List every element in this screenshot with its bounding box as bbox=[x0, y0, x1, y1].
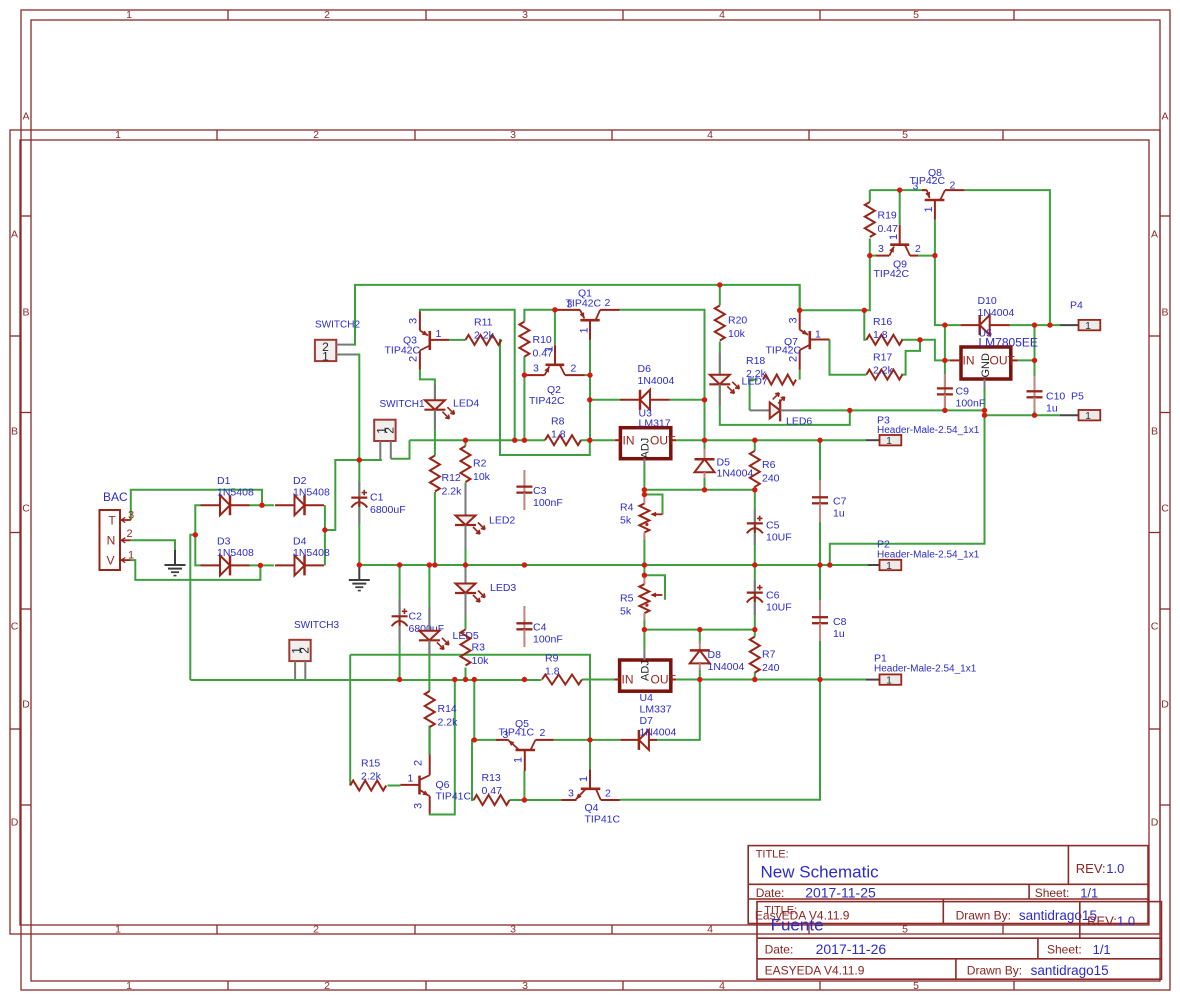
svg-text:2: 2 bbox=[383, 427, 397, 434]
svg-text:OUT: OUT bbox=[651, 673, 677, 687]
svg-text:1: 1 bbox=[126, 9, 132, 21]
wire R18 left drop to LED6 bbox=[750, 380, 758, 411]
junction dot node C5-C6 bbox=[752, 562, 757, 567]
capacitor C7 1u bbox=[812, 480, 847, 522]
svg-text:100nF: 100nF bbox=[533, 497, 563, 509]
wire R5 bottom bbox=[643, 618, 645, 630]
junction dot node U5 IN bbox=[942, 358, 947, 363]
svg-text:C: C bbox=[22, 503, 30, 515]
svg-text:1N5408: 1N5408 bbox=[293, 487, 330, 499]
svg-text:4: 4 bbox=[707, 924, 713, 936]
resistor R9 1.8 bbox=[542, 653, 582, 685]
junction dot node D8 bottom / U4 OUT bbox=[697, 677, 702, 682]
svg-text:A: A bbox=[1161, 111, 1168, 123]
svg-text:1: 1 bbox=[886, 435, 892, 447]
svg-text:R7: R7 bbox=[762, 649, 776, 661]
svg-text:2.2k: 2.2k bbox=[361, 771, 382, 783]
svg-text:LED6: LED6 bbox=[786, 416, 812, 428]
svg-text:5: 5 bbox=[913, 980, 919, 992]
junction dot node Q9 base / Q8 row bbox=[897, 187, 902, 192]
junction dot node D5 top bbox=[702, 438, 707, 443]
svg-text:V: V bbox=[106, 554, 114, 568]
wire D5 column upper bbox=[704, 400, 706, 449]
svg-text:Drawn By:: Drawn By: bbox=[956, 909, 1011, 923]
wire Q8 pin2 across and down to P4 row bbox=[965, 190, 1050, 325]
svg-text:2: 2 bbox=[324, 9, 330, 21]
svg-text:1: 1 bbox=[579, 327, 591, 333]
wire Q6 pin3 jog up to neg row bbox=[430, 680, 455, 815]
wire C6 column bbox=[754, 565, 756, 630]
ground (C1 bottom rail) bbox=[349, 567, 370, 591]
transistor Q7 TIP42C bbox=[766, 312, 830, 370]
junction dot node R6 bottom bbox=[752, 487, 757, 492]
junction dot node C7-C8 bbox=[817, 562, 822, 567]
svg-text:Sheet:: Sheet: bbox=[1047, 943, 1082, 957]
svg-text:LM7805EE: LM7805EE bbox=[979, 336, 1038, 350]
wire Q2 pin3 stub bbox=[524, 374, 526, 376]
svg-text:1N4004: 1N4004 bbox=[708, 661, 745, 673]
svg-text:C2: C2 bbox=[409, 611, 423, 623]
capacitor C10 1u bbox=[1027, 376, 1066, 415]
svg-text:Date:: Date: bbox=[756, 886, 785, 900]
junction dot node U4 ADJ bbox=[642, 627, 647, 632]
svg-text:2: 2 bbox=[413, 760, 425, 766]
wire Q7-Q9 row bbox=[800, 256, 870, 311]
svg-text:5: 5 bbox=[913, 9, 919, 21]
diode D8 1N4004 bbox=[690, 641, 745, 673]
svg-text:1: 1 bbox=[322, 350, 329, 364]
junction dot node C4 bottom bbox=[522, 677, 527, 682]
junction dot node R6 top bbox=[752, 438, 757, 443]
wire D1 cathode to D2 anode bbox=[249, 504, 274, 506]
svg-text:D: D bbox=[11, 817, 19, 829]
resistor R11 2.2k bbox=[466, 317, 502, 345]
svg-text:Header-Male-2.54_1x1: Header-Male-2.54_1x1 bbox=[877, 425, 980, 436]
resistor R2 10k bbox=[461, 446, 491, 483]
svg-text:C8: C8 bbox=[833, 616, 847, 628]
svg-text:B: B bbox=[11, 426, 18, 438]
svg-text:1u: 1u bbox=[833, 508, 845, 520]
wire Q5 pin2 to Q4 base node bbox=[554, 739, 590, 741]
wire R4 bottom to ground rail bbox=[643, 536, 645, 566]
svg-text:3: 3 bbox=[533, 363, 539, 375]
svg-text:P5: P5 bbox=[1071, 391, 1084, 403]
wire LED7 return to LED6 node bbox=[720, 386, 850, 425]
wire vertical to R15 bbox=[349, 655, 351, 786]
wire R5 wiper loop bbox=[644, 575, 665, 600]
wire ADJ rail upper bbox=[644, 489, 754, 491]
svg-text:3: 3 bbox=[913, 181, 919, 193]
svg-text:A: A bbox=[1151, 229, 1158, 241]
sheet frame 2 (second overlapping schematic border) bbox=[10, 129, 1160, 935]
wire Q3 pin2 jog to LED4 bbox=[420, 370, 435, 456]
svg-text:C: C bbox=[1151, 621, 1159, 633]
transistor Q5 TIP41C bbox=[496, 718, 554, 771]
svg-text:Q4: Q4 bbox=[585, 802, 599, 814]
svg-text:1N4004: 1N4004 bbox=[638, 375, 675, 387]
wire Q2 base drop bbox=[554, 310, 556, 345]
header P5 bbox=[1060, 391, 1100, 423]
LED LED3 bbox=[455, 567, 516, 617]
svg-text:SWITCH2: SWITCH2 bbox=[315, 320, 360, 331]
wire C10 column bbox=[1034, 325, 1036, 415]
svg-text:ADJ: ADJ bbox=[640, 438, 652, 459]
svg-text:2017-11-25: 2017-11-25 bbox=[805, 884, 876, 900]
ground (BAC neutral) bbox=[165, 550, 186, 576]
svg-text:2: 2 bbox=[540, 727, 546, 739]
junction dot node R5 top bbox=[642, 573, 647, 578]
resistor R16 1.8 bbox=[866, 316, 902, 345]
svg-text:240: 240 bbox=[762, 662, 780, 674]
transistor Q4 TIP41C bbox=[561, 769, 620, 825]
svg-text:1: 1 bbox=[578, 776, 590, 782]
wire SWITCH1 pin2 jog up to R8 row bbox=[391, 440, 410, 459]
svg-text:BAC: BAC bbox=[103, 490, 128, 504]
resistor R19 0.47 bbox=[865, 202, 898, 237]
svg-text:1.8: 1.8 bbox=[873, 329, 888, 341]
svg-text:R2: R2 bbox=[473, 458, 487, 470]
wire C8 column bbox=[819, 565, 821, 680]
wire R11 right s-jog to U3 IN node bbox=[500, 340, 590, 455]
junction dot node Q5 base / R13 bbox=[522, 797, 527, 802]
diode D1 1N5408 bbox=[201, 475, 254, 515]
svg-text:OUT: OUT bbox=[990, 354, 1016, 368]
header P4 bbox=[1060, 300, 1100, 332]
wire D6 left lead to Q1 base column bbox=[590, 399, 620, 401]
resistor R6 240 bbox=[750, 451, 780, 487]
wire A: SWITCH2 pin2 up and across top bbox=[350, 285, 799, 345]
svg-text:TIP42C: TIP42C bbox=[766, 345, 802, 357]
capacitor C9 100nF bbox=[937, 374, 985, 410]
svg-text:C5: C5 bbox=[766, 520, 780, 532]
svg-text:Header-Male-2.54_1x1: Header-Male-2.54_1x1 bbox=[877, 550, 980, 561]
svg-text:4: 4 bbox=[719, 980, 725, 992]
svg-text:3: 3 bbox=[522, 9, 528, 21]
resistor R17 2.2k bbox=[866, 352, 902, 380]
svg-text:1: 1 bbox=[115, 129, 121, 141]
regulator U4 LM337 bbox=[615, 650, 677, 739]
junction dot node U3 ADJ bbox=[642, 487, 647, 492]
wire LED2 column to ground rail bbox=[465, 483, 467, 566]
svg-text:2.2k: 2.2k bbox=[442, 486, 463, 498]
svg-text:1: 1 bbox=[544, 346, 556, 352]
svg-text:ADJ: ADJ bbox=[640, 660, 652, 681]
svg-text:1: 1 bbox=[436, 328, 442, 340]
regulator U5 LM7805EE bbox=[950, 328, 1038, 390]
junction dot node Q1 pin3 / Q2 base bbox=[552, 307, 557, 312]
svg-text:C6: C6 bbox=[766, 590, 780, 602]
wire Q7 pin2 to R18 bbox=[799, 370, 801, 380]
svg-text:R14: R14 bbox=[438, 703, 457, 715]
svg-text:1: 1 bbox=[886, 560, 892, 572]
junction dot node R4 bottom bbox=[642, 562, 647, 567]
wire Q3 pin3 over to R8 row bbox=[420, 310, 515, 440]
wire R13 node to Q4 pin3 bbox=[524, 799, 561, 801]
header P1 bbox=[866, 653, 977, 687]
wire LED3 column bbox=[465, 565, 467, 630]
svg-text:N: N bbox=[107, 534, 116, 548]
junction dot node Q6 riser bbox=[452, 677, 457, 682]
svg-text:3: 3 bbox=[408, 318, 420, 324]
wire LED5-R14 column upper bbox=[428, 565, 430, 691]
junction dot node R3 bottom bbox=[463, 677, 468, 682]
junction dot node Q5 riser top bbox=[472, 677, 477, 682]
capacitor C4 100nF bbox=[516, 606, 562, 647]
transistor Q2 TIP42C bbox=[526, 345, 585, 407]
resistor R20 10k bbox=[715, 306, 748, 341]
wire Q4 base drop bbox=[589, 740, 591, 769]
svg-text:U4: U4 bbox=[640, 692, 654, 704]
resistor R10 0.47 bbox=[519, 322, 553, 360]
LED LED7 bbox=[709, 353, 768, 406]
switch SWITCH1 bbox=[374, 399, 425, 460]
wire C1 column bbox=[358, 460, 360, 565]
svg-text:0.47: 0.47 bbox=[482, 785, 503, 797]
capacitor C1 6800uF bbox=[351, 482, 405, 524]
wire P5 row bbox=[985, 414, 1061, 416]
svg-text:3: 3 bbox=[567, 299, 573, 311]
junction dot node R7 bottom bbox=[752, 677, 757, 682]
junction dot node R10-C3 bbox=[522, 438, 527, 443]
wire U5 OUT to C10 column bbox=[1018, 359, 1035, 361]
svg-text:B: B bbox=[1161, 307, 1168, 319]
svg-text:A: A bbox=[22, 111, 29, 123]
svg-text:Sheet:: Sheet: bbox=[1035, 886, 1070, 900]
svg-text:5: 5 bbox=[902, 129, 908, 141]
svg-text:LED4: LED4 bbox=[453, 398, 479, 410]
svg-text:TITLE:: TITLE: bbox=[756, 849, 789, 861]
potentiometer R4 5k bbox=[620, 495, 662, 540]
svg-text:2017-11-26: 2017-11-26 bbox=[816, 941, 887, 957]
wire bridge left drop to switch3 row bbox=[190, 535, 195, 680]
svg-text:100nF: 100nF bbox=[956, 398, 986, 410]
junction dot node D8 top bbox=[697, 627, 702, 632]
svg-text:2: 2 bbox=[605, 297, 611, 309]
svg-text:New Schematic: New Schematic bbox=[761, 863, 880, 882]
svg-text:2.2k: 2.2k bbox=[438, 717, 459, 729]
resistor R3 10k bbox=[461, 630, 490, 668]
svg-text:santidrago15: santidrago15 bbox=[1019, 908, 1097, 923]
transistor Q3 TIP42C bbox=[385, 312, 450, 370]
svg-text:1N5408: 1N5408 bbox=[293, 547, 330, 559]
svg-text:1N4004: 1N4004 bbox=[717, 468, 754, 480]
LED LED2 bbox=[455, 484, 515, 549]
wire mid row to Q4 base bbox=[350, 655, 590, 740]
wire SWITCH2 pin1 drop bbox=[357, 355, 360, 461]
svg-text:10UF: 10UF bbox=[766, 602, 792, 614]
wire A right drop bbox=[799, 285, 801, 310]
svg-text:2: 2 bbox=[313, 129, 319, 141]
svg-text:R9: R9 bbox=[545, 653, 559, 665]
svg-text:10k: 10k bbox=[728, 328, 746, 340]
svg-text:SWITCH3: SWITCH3 bbox=[294, 620, 339, 631]
svg-text:C9: C9 bbox=[956, 386, 970, 398]
wire Q2 pin2 stub bbox=[585, 374, 590, 376]
svg-text:D7: D7 bbox=[640, 715, 654, 727]
LED LED6 bbox=[750, 393, 813, 428]
svg-text:R11: R11 bbox=[474, 317, 493, 329]
svg-text:LED3: LED3 bbox=[490, 582, 516, 594]
svg-text:1: 1 bbox=[513, 757, 525, 763]
svg-text:TIP41C: TIP41C bbox=[585, 814, 621, 826]
diode D7 1N4004 bbox=[620, 730, 657, 750]
junction dot node bridge left rail bbox=[193, 532, 198, 537]
wire D2 cathode to D4 cathode bbox=[324, 505, 326, 565]
wire D8 column lower bbox=[699, 668, 701, 680]
wire D10 node to U5 IN node bbox=[944, 325, 946, 360]
wire Q5 pin3 row bbox=[474, 739, 496, 741]
svg-text:10k: 10k bbox=[473, 471, 491, 483]
junction dot node C2 bottom bbox=[397, 677, 402, 682]
junction dot node Q8 pin2 drop bbox=[1047, 322, 1052, 327]
svg-text:C3: C3 bbox=[533, 485, 547, 497]
svg-text:3: 3 bbox=[510, 924, 516, 936]
svg-text:R18: R18 bbox=[746, 355, 765, 367]
resistor R18 2.2k bbox=[746, 355, 796, 385]
wire R8 row left bbox=[410, 439, 546, 441]
svg-text:0.47: 0.47 bbox=[878, 223, 899, 235]
potentiometer R5 5k bbox=[620, 575, 662, 620]
wire U3 OUT row bbox=[676, 439, 866, 441]
svg-text:REV:: REV: bbox=[1087, 914, 1117, 929]
wire R16 left drop bbox=[864, 310, 866, 340]
wire bridge left rail (D1,D3 anodes) bbox=[195, 505, 200, 565]
svg-text:1: 1 bbox=[128, 550, 134, 562]
wire Q1 base column bbox=[589, 340, 591, 440]
svg-text:2: 2 bbox=[605, 788, 611, 800]
svg-text:R15: R15 bbox=[361, 758, 380, 770]
junction dot node LED2-LED3 bbox=[463, 562, 468, 567]
svg-text:TIP41C: TIP41C bbox=[436, 791, 472, 803]
junction dot node R16-R17 bbox=[917, 337, 922, 342]
junction dot node R2 top bbox=[463, 438, 468, 443]
svg-text:R3: R3 bbox=[472, 642, 486, 654]
wire node to U5 IN bbox=[920, 340, 945, 361]
connector BAC bbox=[100, 490, 135, 570]
svg-text:1N5408: 1N5408 bbox=[217, 487, 254, 499]
wire R19 top bbox=[869, 190, 871, 202]
junction dot node R4 wiper bbox=[642, 492, 647, 497]
svg-text:3: 3 bbox=[568, 788, 574, 800]
wire drop to R13 bbox=[472, 740, 474, 800]
junction dot node LED5 top bbox=[427, 562, 432, 567]
svg-text:1: 1 bbox=[888, 234, 900, 240]
junction dot node Q3 riser bbox=[512, 438, 517, 443]
wire ground rail (main horizontal bus) bbox=[359, 564, 867, 566]
svg-text:R4: R4 bbox=[620, 502, 634, 514]
svg-text:1.8: 1.8 bbox=[551, 429, 566, 441]
junction dot node C7 top bbox=[817, 438, 822, 443]
wire D3 cathode to D4 anode bbox=[249, 564, 274, 566]
svg-text:T: T bbox=[108, 514, 116, 528]
junction dot node R12 bottom bbox=[432, 562, 437, 567]
wire R14 to Q6 pin2 bbox=[428, 726, 430, 756]
svg-text:2: 2 bbox=[950, 180, 956, 192]
junction dot node C1 bottom / ground rail bbox=[357, 562, 362, 567]
svg-text:10UF: 10UF bbox=[766, 532, 792, 544]
svg-text:2.2k: 2.2k bbox=[746, 368, 767, 380]
svg-text:1.0: 1.0 bbox=[1106, 861, 1124, 876]
svg-text:3: 3 bbox=[128, 510, 134, 522]
svg-text:A: A bbox=[11, 229, 18, 241]
junction dot node C1 top / SWITCH2 bbox=[357, 457, 362, 462]
wire R7 top lead bbox=[754, 630, 756, 637]
wire negative input row (SWITCH3 to R9) bbox=[190, 679, 541, 681]
svg-text:C: C bbox=[11, 621, 19, 633]
svg-text:D8: D8 bbox=[708, 649, 722, 661]
svg-text:D: D bbox=[1151, 817, 1159, 829]
svg-text:2: 2 bbox=[298, 647, 312, 654]
wire R7 bottom lead bbox=[754, 672, 756, 679]
wire R5 top lead bbox=[643, 565, 645, 575]
capacitor C8 1u bbox=[812, 600, 847, 641]
resistor R15 2.2k bbox=[350, 758, 386, 791]
svg-text:IN: IN bbox=[963, 354, 975, 368]
svg-text:R10: R10 bbox=[533, 334, 552, 346]
svg-text:1u: 1u bbox=[1046, 403, 1058, 415]
wire R2 top lead bbox=[465, 440, 467, 446]
svg-text:B: B bbox=[22, 307, 29, 319]
svg-text:D4: D4 bbox=[293, 535, 307, 547]
svg-text:1.8: 1.8 bbox=[545, 666, 560, 678]
svg-text:3: 3 bbox=[788, 317, 800, 323]
junction dot node C2 top bbox=[397, 562, 402, 567]
wire LED6 row to U5 ground node bbox=[800, 409, 985, 411]
svg-text:D3: D3 bbox=[217, 535, 231, 547]
wire R16 right to node bbox=[901, 339, 920, 341]
wire R19 bottom bbox=[869, 239, 871, 256]
svg-text:1/1: 1/1 bbox=[1080, 885, 1098, 900]
transistor Q8 TIP42C bbox=[910, 167, 965, 220]
svg-text:TIP42C: TIP42C bbox=[874, 268, 910, 280]
LED LED5 bbox=[419, 607, 479, 656]
svg-text:10k: 10k bbox=[472, 655, 490, 667]
wire U4 OUT row bbox=[676, 679, 866, 681]
junction dot node D6 cathode / Q1 pin2 bbox=[702, 397, 707, 402]
junction dot node D5 bottom bbox=[702, 487, 707, 492]
svg-text:C4: C4 bbox=[533, 622, 547, 634]
svg-text:1: 1 bbox=[1085, 320, 1091, 332]
svg-text:3: 3 bbox=[878, 243, 884, 255]
wire R20 to LED7 bbox=[719, 342, 721, 375]
svg-text:D: D bbox=[1161, 699, 1169, 711]
svg-text:C7: C7 bbox=[833, 496, 847, 508]
svg-text:D2: D2 bbox=[293, 475, 307, 487]
wire R15 right to Q6 base bbox=[388, 785, 401, 787]
diode D10 1N4004 bbox=[961, 295, 1015, 335]
title block 2 (Fuente / 2017-11-26) bbox=[757, 902, 1162, 980]
svg-text:P4: P4 bbox=[1070, 300, 1083, 312]
wire Q5 base drop to R13 node bbox=[523, 771, 525, 800]
junction dot node P1 bbox=[817, 677, 822, 682]
svg-text:R13: R13 bbox=[482, 772, 501, 784]
svg-text:Date:: Date: bbox=[765, 943, 794, 957]
svg-text:5: 5 bbox=[902, 924, 908, 936]
svg-text:R17: R17 bbox=[873, 352, 892, 364]
svg-text:EASYEDA V4.11.9: EASYEDA V4.11.9 bbox=[765, 964, 865, 978]
svg-text:3: 3 bbox=[522, 980, 528, 992]
wire U5 IN stub bbox=[945, 359, 950, 361]
svg-text:R12: R12 bbox=[442, 472, 461, 484]
svg-text:santidrago15: santidrago15 bbox=[1031, 963, 1109, 978]
junction dot node bridge output bbox=[322, 527, 327, 532]
junction dot node U3 IN bbox=[587, 438, 592, 443]
wire Q5 riser bbox=[473, 680, 475, 740]
header P3 bbox=[866, 415, 980, 448]
junction dot node C9 bottom bbox=[942, 408, 947, 413]
svg-text:OUT: OUT bbox=[650, 434, 676, 448]
svg-text:LM337: LM337 bbox=[640, 704, 672, 716]
